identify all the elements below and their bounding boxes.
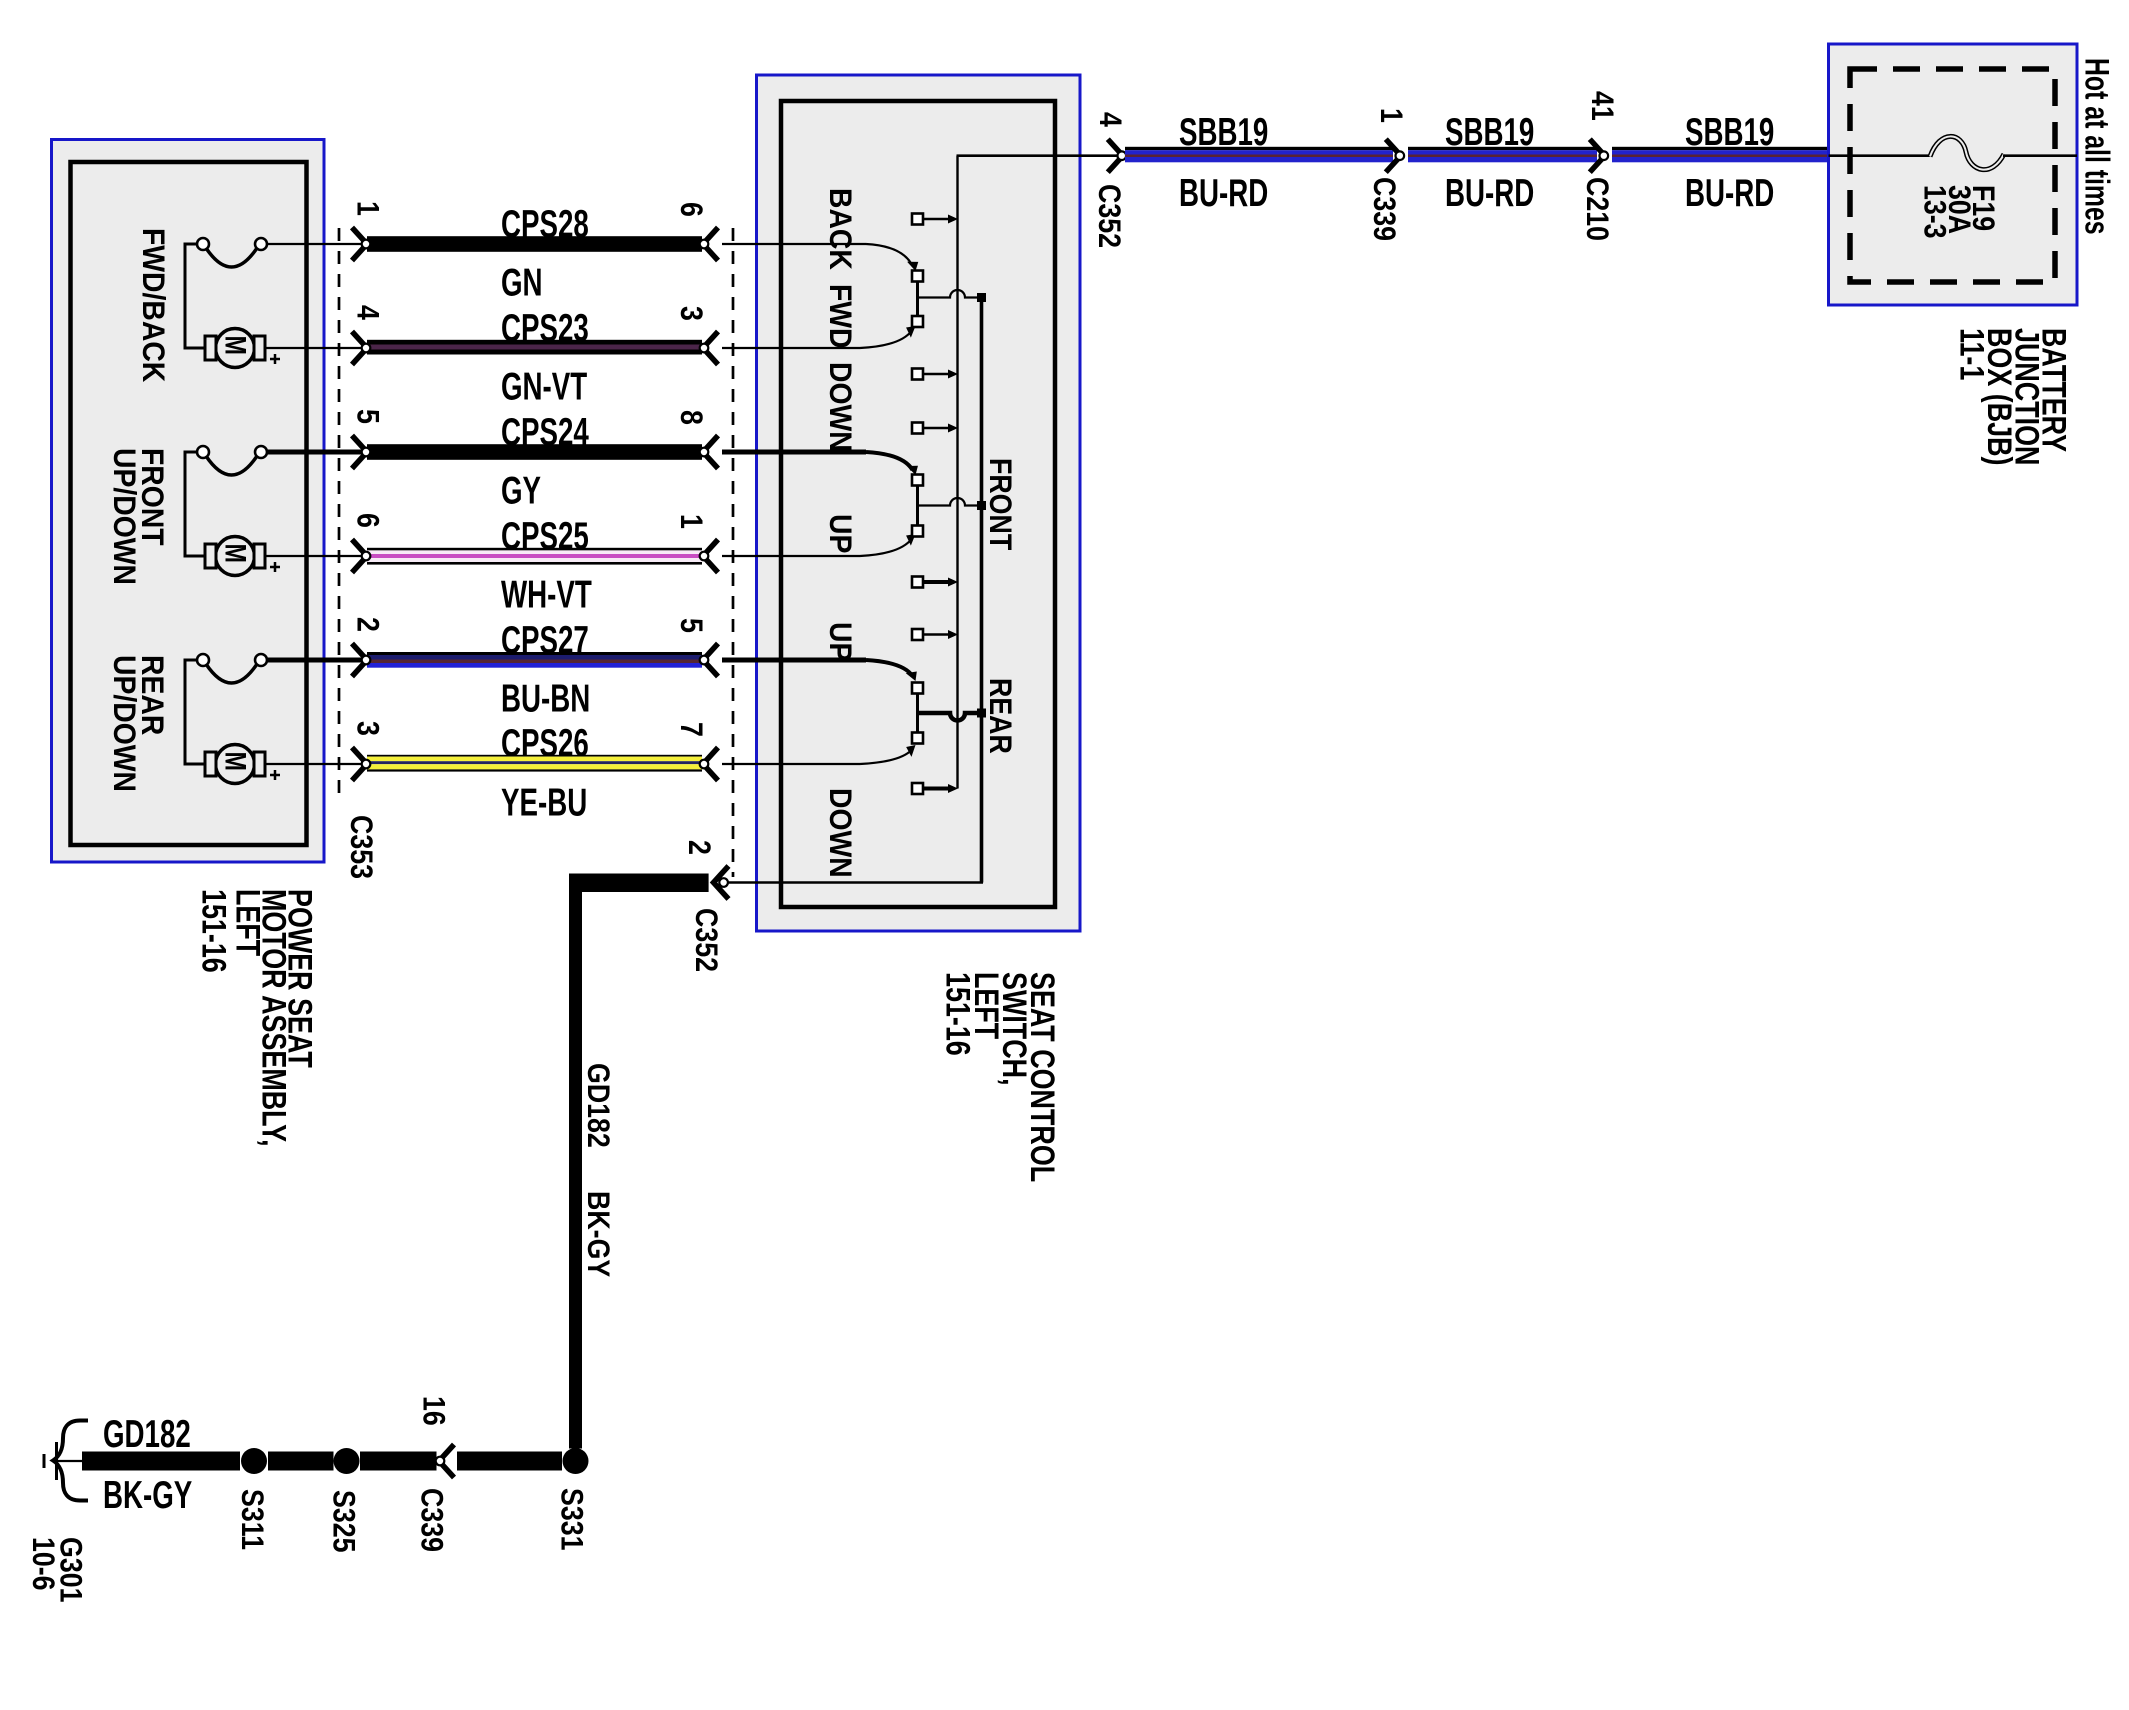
svg-text:FRONT: FRONT <box>982 458 1016 550</box>
label FRONT UP/DOWN <box>107 448 170 585</box>
label DOWN <box>823 362 858 452</box>
wire ground bus to pin 2 <box>723 881 983 884</box>
ground trunk segment 1 <box>82 1452 240 1471</box>
svg-text:7: 7 <box>673 722 707 737</box>
wire CPS26 YE-BU (pin 3 / pin 7) <box>350 721 718 825</box>
label UP (rear) <box>823 622 858 661</box>
svg-text:CPS27: CPS27 <box>501 620 589 662</box>
svg-text:C353: C353 <box>343 815 377 879</box>
svg-text:16: 16 <box>416 1396 450 1426</box>
svg-text:BACK: BACK <box>823 188 858 270</box>
svg-text:BU-BN: BU-BN <box>501 678 590 720</box>
pin 2 connector C352 <box>681 840 728 972</box>
B+ contact (DOWN front) <box>912 423 958 434</box>
wire CPS25 WH-VT (pin 6 / pin 1) <box>350 513 718 617</box>
connector C353 <box>339 228 378 879</box>
label BACK <box>823 188 858 270</box>
splice S311 <box>234 1448 268 1550</box>
switch 3 wiper <box>912 683 986 744</box>
svg-text:UP: UP <box>823 622 858 661</box>
svg-text:5: 5 <box>673 618 707 633</box>
wire SBB19 BU-RD segment 1 <box>1125 112 1393 215</box>
seat control switch box <box>757 75 1081 931</box>
svg-text:1: 1 <box>350 201 384 216</box>
svg-text:151-16: 151-16 <box>939 972 978 1056</box>
switch 2 wiper <box>912 475 986 537</box>
wire B+ bus to pin 4 <box>957 154 1123 157</box>
wire GD182 pin 2 band <box>569 874 709 893</box>
switch arc unit 3 REAR UP/DOWN <box>185 654 364 764</box>
node ground bus <box>980 298 984 883</box>
svg-text:BK-GY: BK-GY <box>580 1191 614 1278</box>
label FRONT bus <box>982 458 1016 550</box>
svg-text:M: M <box>219 336 252 355</box>
svg-text:CPS28: CPS28 <box>501 204 589 246</box>
svg-text:WH-VT: WH-VT <box>501 574 592 616</box>
svg-text:C339: C339 <box>414 1488 448 1552</box>
svg-text:BU-RD: BU-RD <box>1445 173 1534 215</box>
svg-text:SBB19: SBB19 <box>1445 112 1534 154</box>
svg-text:4: 4 <box>1092 112 1126 128</box>
label REAR UP/DOWN <box>107 655 170 792</box>
svg-text:SBB19: SBB19 <box>1685 112 1774 154</box>
wire pin 5 to switch 3 <box>722 660 921 683</box>
switch arc unit 2 FRONT UP/DOWN <box>185 446 364 556</box>
svg-text:UP/DOWN: UP/DOWN <box>107 655 142 792</box>
B+ contact (UP rear) <box>912 629 958 640</box>
wire CPS28 GN (pin 1 / pin 6) <box>350 201 718 305</box>
wire CPS27 BU-BN (pin 2 / pin 5) <box>350 617 718 721</box>
svg-text:CPS23: CPS23 <box>501 308 589 350</box>
switch arc unit 1 FWD/BACK <box>185 238 364 348</box>
svg-text:DOWN: DOWN <box>823 362 858 452</box>
ground symbol G301 <box>25 1421 88 1603</box>
B+ contact (BACK) <box>912 214 958 225</box>
fuse F19 30A 13-3 <box>1917 136 2004 238</box>
svg-text:151-16: 151-16 <box>195 889 234 973</box>
svg-text:C210: C210 <box>1579 177 1613 241</box>
svg-text:S311: S311 <box>234 1489 268 1550</box>
svg-text:REAR: REAR <box>982 678 1016 754</box>
wire CPS24 GY (pin 5 / pin 8) <box>350 409 718 513</box>
svg-text:C352: C352 <box>688 908 722 972</box>
svg-text:CPS25: CPS25 <box>501 516 589 558</box>
svg-text:2: 2 <box>681 840 715 855</box>
svg-text:BU-RD: BU-RD <box>1179 173 1268 215</box>
label Hot at all times <box>2077 58 2115 235</box>
ground trunk segment 3 <box>360 1452 437 1471</box>
battery junction box (BJB) <box>1829 44 2078 305</box>
svg-text:8: 8 <box>673 410 707 425</box>
svg-text:5: 5 <box>350 409 384 424</box>
svg-text:2: 2 <box>350 617 384 632</box>
svg-text:4: 4 <box>350 305 384 321</box>
svg-text:S331: S331 <box>554 1488 588 1551</box>
motor M3 <box>205 745 364 784</box>
ground trunk segment 2 <box>268 1452 334 1471</box>
svg-text:GD182: GD182 <box>103 1414 191 1456</box>
svg-text:Hot at all times: Hot at all times <box>2077 58 2115 235</box>
svg-text:S325: S325 <box>326 1490 360 1553</box>
node B+ bus <box>956 156 958 789</box>
title BATTERY JUNCTION BOX (BJB) 11-1 <box>1953 328 2074 465</box>
wire CPS23 GN-VT (pin 4 / pin 3) <box>350 305 718 409</box>
svg-text:FWD: FWD <box>823 284 858 349</box>
title POWER SEAT MOTOR ASSEMBLY, LEFT 151-16 <box>195 889 320 1147</box>
svg-text:UP: UP <box>823 514 858 553</box>
label GD182 BK-GY vertical <box>580 1063 614 1278</box>
svg-text:GD182: GD182 <box>580 1063 614 1148</box>
wire pin 6 to switch 1 <box>722 244 921 273</box>
svg-text:C339: C339 <box>1366 177 1400 241</box>
svg-text:DOWN: DOWN <box>823 788 858 878</box>
wire pin 8 to switch 2 <box>722 452 921 477</box>
svg-text:UP/DOWN: UP/DOWN <box>107 448 142 585</box>
svg-text:6: 6 <box>350 513 384 528</box>
svg-text:M: M <box>219 544 252 563</box>
connector C210 (pin 41) <box>1579 91 1618 241</box>
wire fuse to hot side <box>2003 154 2077 157</box>
svg-text:C352: C352 <box>1091 184 1125 248</box>
wire pin 3 to switch 1 <box>722 322 918 348</box>
svg-text:GN: GN <box>501 262 543 304</box>
wire SBB19 BU-RD segment 3 <box>1612 112 1829 215</box>
motor M1 <box>205 329 364 368</box>
svg-text:SBB19: SBB19 <box>1179 112 1268 154</box>
wire into fuse <box>1829 154 1932 157</box>
wire GD182 vertical <box>569 874 582 1449</box>
label UP (front) <box>823 514 858 553</box>
svg-text:BU-RD: BU-RD <box>1685 173 1774 215</box>
svg-text:3: 3 <box>673 306 707 321</box>
power seat motor assembly box <box>52 140 325 863</box>
label DOWN (rear) <box>823 788 858 878</box>
svg-text:M: M <box>219 752 252 771</box>
svg-text:FWD/BACK: FWD/BACK <box>136 228 171 383</box>
svg-text:GN-VT: GN-VT <box>501 366 588 408</box>
svg-text:1: 1 <box>1373 108 1407 123</box>
motor M2 <box>205 537 364 576</box>
svg-text:13-3: 13-3 <box>1917 185 1951 239</box>
svg-text:YE-BU: YE-BU <box>501 782 587 824</box>
svg-text:10-6: 10-6 <box>25 1537 59 1591</box>
svg-text:CPS26: CPS26 <box>501 723 589 765</box>
B+ contact (DOWN rear) <box>912 783 958 794</box>
B+ contact (UP front) <box>912 577 958 588</box>
svg-text:GY: GY <box>501 470 541 512</box>
wire pin 1 to switch 2 <box>722 530 918 556</box>
svg-text:6: 6 <box>673 202 707 217</box>
pin 4 connector C352 <box>1091 112 1126 248</box>
switch 1 wiper <box>912 271 986 328</box>
label FWD <box>823 284 858 349</box>
svg-text:CPS24: CPS24 <box>501 412 589 454</box>
svg-text:BK-GY: BK-GY <box>103 1475 192 1517</box>
splice S325 <box>326 1448 360 1553</box>
label REAR bus <box>982 678 1016 754</box>
ground trunk segment 4 <box>457 1452 562 1471</box>
svg-text:1: 1 <box>673 514 707 529</box>
label FWD/BACK <box>136 228 171 383</box>
connector C352 (left side of switch) <box>732 228 735 877</box>
svg-text:41: 41 <box>1584 91 1618 121</box>
connector C339 (pin 1) <box>1366 108 1407 241</box>
connector C339 (pin 16) <box>414 1396 454 1552</box>
svg-text:3: 3 <box>350 721 384 736</box>
title SEAT CONTROL SWITCH, LEFT 151-16 <box>939 972 1063 1182</box>
wire SBB19 BU-RD segment 2 <box>1408 112 1597 215</box>
B+ contact (FWD) <box>912 369 958 380</box>
wire pin 7 to switch 3 <box>722 741 918 764</box>
svg-text:11-1: 11-1 <box>1953 328 1992 380</box>
splice S331 <box>554 1448 589 1551</box>
